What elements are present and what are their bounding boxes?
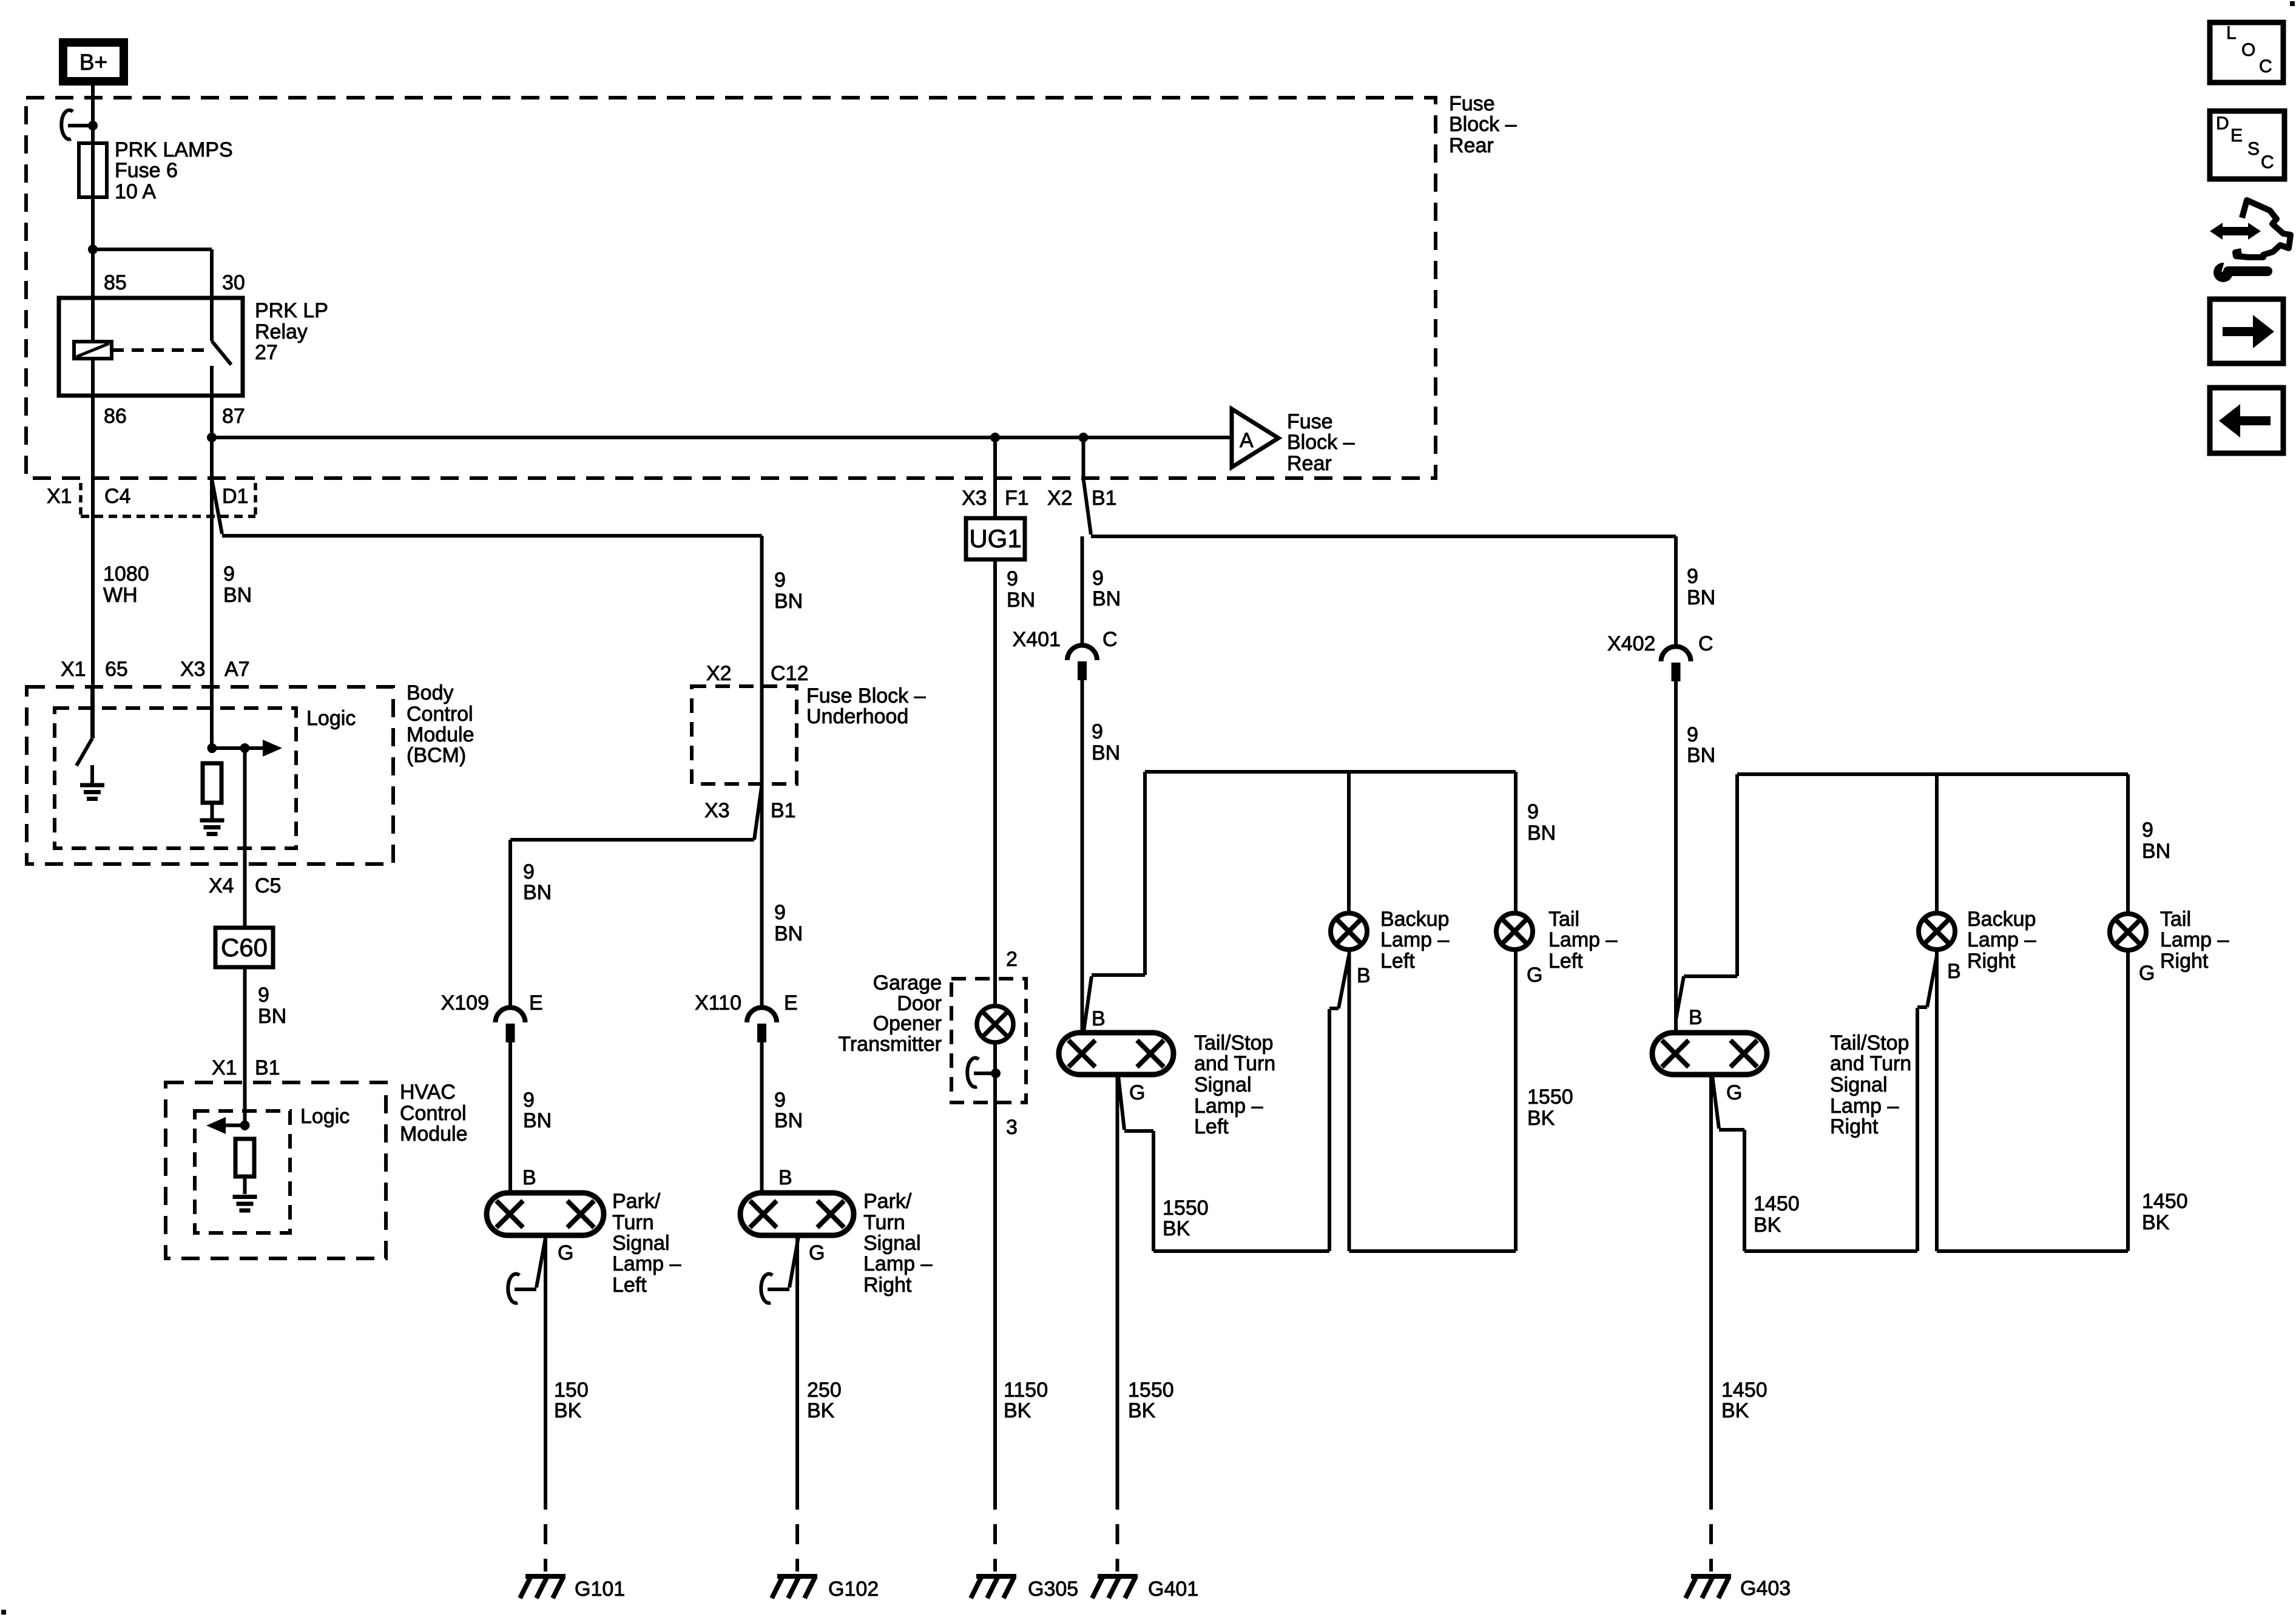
svg-text:BN: BN <box>774 1109 803 1132</box>
svg-text:Block –: Block – <box>1287 431 1355 454</box>
svg-text:150: 150 <box>554 1379 589 1402</box>
svg-text:Garage: Garage <box>873 971 942 994</box>
svg-text:1550: 1550 <box>1128 1379 1174 1402</box>
svg-text:Right: Right <box>1967 950 2016 973</box>
svg-text:PRK LP: PRK LP <box>255 299 328 322</box>
svg-text:X4: X4 <box>209 874 234 897</box>
svg-text:Tail: Tail <box>2160 908 2191 931</box>
svg-text:Signal: Signal <box>1830 1073 1888 1096</box>
svg-text:BN: BN <box>1092 741 1120 765</box>
svg-text:2: 2 <box>1006 948 1018 971</box>
svg-text:1450: 1450 <box>2142 1190 2188 1213</box>
svg-text:X1: X1 <box>47 485 72 508</box>
svg-text:Lamp –: Lamp – <box>863 1252 932 1275</box>
svg-text:9: 9 <box>1687 723 1698 746</box>
svg-text:9: 9 <box>523 1089 535 1112</box>
svg-text:B: B <box>1092 1007 1106 1030</box>
svg-text:Backup: Backup <box>1380 908 1449 931</box>
svg-text:X402: X402 <box>1607 632 1655 655</box>
svg-text:Park/: Park/ <box>863 1190 912 1213</box>
svg-text:Lamp –: Lamp – <box>1830 1095 1899 1118</box>
svg-text:Rear: Rear <box>1449 134 1494 157</box>
svg-text:86: 86 <box>104 405 127 428</box>
svg-text:9: 9 <box>774 901 786 924</box>
svg-text:G101: G101 <box>575 1578 625 1601</box>
svg-text:Turn: Turn <box>863 1211 905 1234</box>
svg-text:and Turn: and Turn <box>1194 1052 1275 1075</box>
svg-text:BK: BK <box>1527 1107 1555 1130</box>
svg-text:Fuse: Fuse <box>1449 92 1495 115</box>
svg-text:9: 9 <box>774 1089 786 1112</box>
svg-text:Signal: Signal <box>1194 1073 1252 1096</box>
svg-text:Logic: Logic <box>306 707 356 730</box>
svg-text:87: 87 <box>222 405 245 428</box>
svg-text:X1: X1 <box>61 658 86 681</box>
svg-text:BN: BN <box>774 590 803 613</box>
svg-text:HVAC: HVAC <box>400 1081 456 1104</box>
svg-text:C: C <box>2259 56 2272 76</box>
svg-text:BK: BK <box>807 1399 835 1422</box>
svg-text:1150: 1150 <box>1004 1379 1048 1402</box>
svg-text:9: 9 <box>258 984 269 1007</box>
svg-text:Block –: Block – <box>1449 113 1517 136</box>
svg-text:BK: BK <box>2142 1211 2170 1234</box>
svg-text:30: 30 <box>222 271 245 294</box>
svg-text:BN: BN <box>1527 822 1556 845</box>
svg-text:G: G <box>1129 1081 1145 1104</box>
svg-text:S: S <box>2247 139 2260 159</box>
svg-text:(BCM): (BCM) <box>407 744 466 767</box>
svg-text:BN: BN <box>1007 589 1035 612</box>
svg-text:85: 85 <box>104 271 127 294</box>
svg-text:C12: C12 <box>771 662 808 685</box>
svg-text:WH: WH <box>103 584 138 607</box>
svg-text:X3: X3 <box>180 658 206 681</box>
svg-text:C60: C60 <box>221 933 268 962</box>
svg-text:and Turn: and Turn <box>1830 1052 1911 1075</box>
svg-text:BN: BN <box>1092 587 1121 610</box>
svg-text:1080: 1080 <box>103 562 149 586</box>
svg-text:1450: 1450 <box>1754 1192 1800 1215</box>
svg-text:65: 65 <box>105 658 128 681</box>
svg-text:Transmitter: Transmitter <box>838 1033 942 1056</box>
svg-text:BN: BN <box>223 584 252 607</box>
svg-text:BK: BK <box>1128 1399 1156 1422</box>
svg-text:Module: Module <box>400 1122 468 1146</box>
svg-text:G: G <box>2139 962 2155 985</box>
svg-text:X109: X109 <box>441 991 489 1014</box>
svg-text:27: 27 <box>255 341 278 364</box>
svg-text:E: E <box>2230 126 2243 146</box>
svg-text:Right: Right <box>2160 950 2209 973</box>
svg-text:X2: X2 <box>1047 487 1073 510</box>
svg-text:Right: Right <box>1830 1115 1879 1138</box>
svg-text:9: 9 <box>2142 819 2153 842</box>
svg-text:Park/: Park/ <box>612 1190 661 1213</box>
svg-text:BN: BN <box>2142 840 2170 863</box>
svg-text:Left: Left <box>1380 950 1415 973</box>
svg-text:Turn: Turn <box>612 1211 654 1234</box>
svg-text:Fuse 6: Fuse 6 <box>115 159 178 182</box>
svg-text:E: E <box>784 991 798 1014</box>
svg-text:G305: G305 <box>1028 1578 1078 1601</box>
svg-text:G403: G403 <box>1740 1577 1791 1600</box>
svg-text:BN: BN <box>774 922 803 945</box>
svg-text:BK: BK <box>1004 1399 1032 1422</box>
svg-text:9: 9 <box>223 562 235 586</box>
svg-text:Body: Body <box>407 681 454 704</box>
svg-text:X401: X401 <box>1013 628 1061 651</box>
svg-text:9: 9 <box>1007 567 1018 590</box>
svg-text:9: 9 <box>1527 800 1539 823</box>
svg-text:Lamp –: Lamp – <box>1967 928 2036 951</box>
svg-text:Control: Control <box>407 703 473 726</box>
svg-text:G102: G102 <box>828 1578 879 1601</box>
svg-text:Backup: Backup <box>1967 908 2036 931</box>
svg-text:Rear: Rear <box>1287 452 1332 475</box>
svg-text:B1: B1 <box>771 799 796 822</box>
svg-text:9: 9 <box>1092 567 1104 590</box>
svg-text:Signal: Signal <box>863 1232 921 1255</box>
svg-text:PRK LAMPS: PRK LAMPS <box>115 138 233 161</box>
svg-text:B1: B1 <box>1092 487 1117 510</box>
svg-text:O: O <box>2241 40 2255 60</box>
svg-text:X3: X3 <box>962 487 987 510</box>
svg-text:Tail/Stop: Tail/Stop <box>1194 1031 1273 1055</box>
svg-text:G401: G401 <box>1148 1578 1198 1601</box>
svg-text:X2: X2 <box>706 662 732 685</box>
svg-text:X1: X1 <box>212 1056 237 1079</box>
svg-text:Lamp –: Lamp – <box>2160 928 2229 951</box>
svg-text:B: B <box>1689 1006 1703 1029</box>
svg-text:G: G <box>1726 1081 1742 1104</box>
svg-text:B: B <box>522 1166 536 1189</box>
svg-text:9: 9 <box>523 860 535 883</box>
svg-text:BK: BK <box>1163 1217 1190 1240</box>
svg-text:Lamp –: Lamp – <box>1380 928 1449 951</box>
svg-text:3: 3 <box>1006 1116 1018 1139</box>
svg-text:Fuse: Fuse <box>1287 410 1333 433</box>
svg-text:B: B <box>1357 964 1371 987</box>
svg-text:Left: Left <box>1548 950 1583 973</box>
svg-text:Tail/Stop: Tail/Stop <box>1830 1031 1909 1055</box>
svg-text:G: G <box>1527 964 1542 987</box>
svg-text:C5: C5 <box>255 874 281 897</box>
svg-text:1550: 1550 <box>1163 1197 1209 1220</box>
svg-text:G: G <box>558 1241 573 1264</box>
svg-text:C4: C4 <box>104 485 130 508</box>
svg-text:Signal: Signal <box>612 1232 670 1255</box>
svg-text:A: A <box>1240 429 1254 452</box>
svg-text:9: 9 <box>1687 565 1698 588</box>
svg-text:E: E <box>529 991 543 1014</box>
svg-text:Logic: Logic <box>300 1105 349 1128</box>
svg-text:UG1: UG1 <box>969 524 1021 553</box>
svg-text:Fuse Block –: Fuse Block – <box>806 684 926 707</box>
svg-text:BN: BN <box>523 881 552 904</box>
svg-text:1450: 1450 <box>1721 1379 1768 1402</box>
svg-text:Lamp –: Lamp – <box>1548 928 1617 951</box>
svg-text:C: C <box>1102 628 1118 651</box>
svg-text:Module: Module <box>407 723 474 746</box>
svg-text:X110: X110 <box>695 991 741 1014</box>
svg-text:Left: Left <box>1194 1115 1229 1138</box>
svg-text:Control: Control <box>400 1102 467 1125</box>
svg-text:Right: Right <box>863 1274 912 1297</box>
svg-text:9: 9 <box>774 569 786 592</box>
svg-text:Tail: Tail <box>1548 908 1579 931</box>
svg-text:9: 9 <box>1092 720 1103 743</box>
svg-text:BN: BN <box>258 1005 286 1028</box>
svg-text:250: 250 <box>807 1379 842 1402</box>
svg-text:B+: B+ <box>79 50 107 75</box>
svg-text:X3: X3 <box>704 799 730 822</box>
svg-text:Lamp –: Lamp – <box>612 1252 681 1275</box>
svg-text:D1: D1 <box>222 485 248 508</box>
svg-text:BN: BN <box>523 1109 552 1132</box>
svg-text:D: D <box>2216 113 2229 133</box>
svg-text:BK: BK <box>1754 1214 1781 1237</box>
svg-text:BN: BN <box>1687 586 1715 609</box>
svg-text:BN: BN <box>1687 744 1715 767</box>
svg-text:B: B <box>1947 960 1961 983</box>
svg-text:B: B <box>778 1166 792 1189</box>
svg-text:BK: BK <box>1721 1399 1749 1422</box>
svg-text:Left: Left <box>612 1274 647 1297</box>
svg-text:Lamp –: Lamp – <box>1194 1095 1263 1118</box>
svg-text:F1: F1 <box>1005 487 1029 510</box>
svg-text:A7: A7 <box>225 658 250 681</box>
svg-text:C: C <box>2261 152 2274 172</box>
svg-text:Underhood: Underhood <box>806 705 908 728</box>
svg-text:Relay: Relay <box>255 320 308 343</box>
svg-text:C: C <box>1698 632 1714 655</box>
svg-text:10 A: 10 A <box>115 180 156 203</box>
svg-text:Opener: Opener <box>873 1012 942 1035</box>
svg-text:G: G <box>809 1241 825 1264</box>
svg-text:1550: 1550 <box>1527 1085 1573 1109</box>
svg-text:B1: B1 <box>255 1056 280 1079</box>
svg-text:L: L <box>2226 23 2237 43</box>
svg-text:BK: BK <box>554 1399 582 1422</box>
